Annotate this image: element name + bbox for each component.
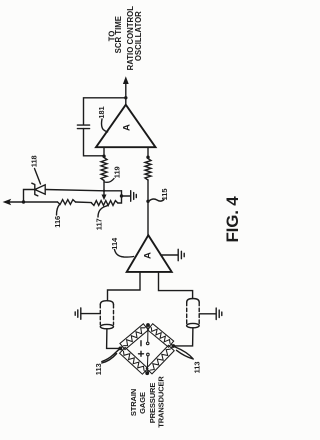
node: output label TO SCR TIME RATIO CONTROL OSCILLATOR: [107, 6, 143, 71]
ground (at 117): [122, 195, 131, 197]
wire: 116 to 117: [76, 201, 92, 204]
ground (at op-amp 114): [161, 254, 179, 256]
wire: shield tap left: [81, 313, 100, 315]
wire: resistor 115 to op-amp 114 output: [147, 180, 149, 235]
node: dot: [102, 155, 105, 158]
op-amp 114 (amplifier A): [127, 235, 172, 272]
svg-text:FIG. 4: FIG. 4: [223, 196, 240, 243]
wire: zener cathode to wiper rail: [45, 190, 121, 191]
capacitor (feedback, unlabeled): [77, 125, 89, 129]
wire: feedback bottom to inverting input: [84, 129, 105, 156]
wire: 114 right input to right cable: [159, 272, 193, 299]
strain gage 113 arm upper-left: [120, 324, 148, 350]
ground (left shield): [75, 308, 81, 319]
node: feedback junction dot: [124, 96, 127, 99]
wire: feedback top: [84, 98, 126, 125]
terminal circle minus: [146, 342, 149, 345]
svg-text:TRANSDUCER: TRANSDUCER: [157, 376, 166, 428]
svg-text:A: A: [143, 252, 154, 259]
wire: 117 right end up to rail: [118, 191, 122, 203]
potentiometer 117: [92, 201, 118, 206]
wire: top vertex to minus terminal: [147, 325, 149, 342]
node: label STRAIN GAGE PRESSURE TRANSDUCER: [129, 376, 166, 428]
svg-text:PRESSURE: PRESSURE: [148, 383, 157, 424]
svg-text:118: 118: [29, 155, 38, 167]
ground (right shield): [216, 308, 222, 319]
svg-text:181: 181: [97, 106, 106, 118]
svg-text:SCR TIME: SCR TIME: [114, 16, 123, 53]
node: bridge right vertex: [171, 344, 175, 348]
svg-text:113: 113: [94, 363, 103, 375]
node: dot ground tap: [120, 194, 123, 197]
shielded cable (right): [187, 299, 200, 303]
svg-text:114: 114: [110, 237, 119, 250]
node: dot at wiper rail: [103, 190, 105, 192]
shielded cable (left): [100, 301, 113, 305]
wire: left cable to bridge: [107, 329, 121, 349]
strain gage 113 arm lower-right: [146, 345, 174, 374]
wire: 119 to wiper rail: [103, 181, 105, 191]
svg-text:GAGE: GAGE: [138, 392, 147, 414]
node: bridge bottom vertex: [145, 371, 149, 375]
svg-text:STRAIN: STRAIN: [129, 389, 138, 416]
node: bridge left vertex: [118, 347, 122, 351]
svg-text:A: A: [122, 124, 133, 131]
svg-text:116: 116: [53, 216, 62, 228]
wire: main rail with output arrow left: [9, 201, 58, 203]
minus polarity mark: [140, 341, 142, 346]
strain gage 113 arm lower-left: [120, 347, 148, 374]
node: dot: [146, 156, 149, 159]
node: dot on wire 115: [146, 200, 149, 203]
svg-text:115: 115: [160, 189, 169, 201]
wire: 181 left input pin: [103, 147, 105, 156]
wire: 181 right input pin: [147, 147, 149, 157]
node: dot zener junction: [22, 200, 25, 203]
wire: shield tap right: [199, 313, 216, 315]
wire: plus terminal to bottom vertex: [146, 356, 149, 373]
svg-text:OSCILLATOR: OSCILLATOR: [134, 11, 143, 61]
node: bridge top vertex: [146, 323, 150, 327]
terminal circle plus: [147, 353, 150, 356]
plus polarity mark: [139, 351, 144, 356]
wire: zener anode down to main rail: [24, 190, 35, 203]
arrowhead up: [123, 76, 129, 84]
wire: 114 left input to left cable: [108, 272, 141, 301]
zener diode 118: [35, 185, 45, 194]
arrowhead left: [3, 199, 12, 206]
svg-text:119: 119: [113, 166, 122, 178]
strain gage 113 arm upper-right: [148, 324, 174, 348]
wire: right cable to bridge: [173, 328, 193, 346]
resistor 116: [58, 200, 76, 205]
resistor 119: [101, 158, 107, 181]
svg-text:117: 117: [94, 218, 103, 230]
resistor 115: [145, 159, 151, 181]
op-amp 181 (amplifier A): [96, 105, 156, 148]
wiper arrow of 117: [103, 191, 105, 197]
wire: output of op-amp 181 to oscillator: [125, 81, 127, 105]
svg-text:113: 113: [192, 362, 201, 374]
